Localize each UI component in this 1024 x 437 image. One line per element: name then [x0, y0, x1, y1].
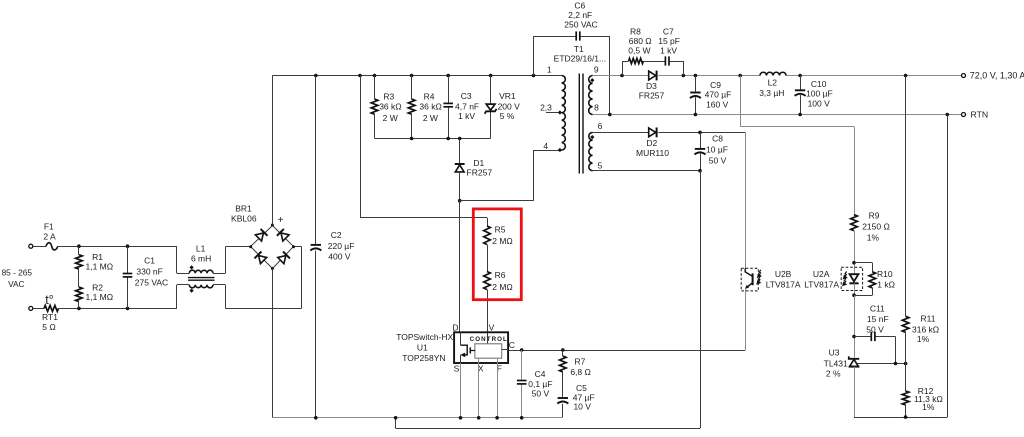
label R4 36 kohm 2 W	[419, 91, 441, 122]
wire source rail	[272, 417, 562, 419]
label C3 4,7 nF 1 kV	[455, 91, 479, 121]
svg-text:+: +	[278, 215, 284, 226]
svg-text:CONTROL: CONTROL	[470, 336, 508, 343]
wire	[905, 332, 907, 363]
diode D3	[649, 71, 657, 81]
op-amp U1 box	[454, 332, 508, 363]
capacitor C9	[690, 93, 701, 99]
node junction	[314, 74, 535, 78]
highlight box R5 R6	[473, 209, 521, 300]
label R1 1,1 Mohm	[85, 252, 113, 271]
label R6 2 Mohm	[492, 270, 513, 292]
pin label 2,3	[540, 102, 552, 112]
label T1 ETD29	[554, 44, 606, 64]
svg-text:10 µF: 10 µF	[706, 145, 728, 155]
resistor R11	[902, 316, 909, 332]
wire	[58, 246, 177, 248]
label R12 11,3 kohm 1%	[914, 386, 943, 412]
svg-text:V: V	[489, 323, 495, 333]
transformer T1 secondary winding 9-8	[589, 76, 593, 115]
label t deg	[45, 293, 53, 307]
bridge BR1 outline	[251, 226, 294, 269]
wire	[78, 246, 80, 255]
svg-text:D: D	[452, 323, 458, 333]
BR1 diode bottom-left	[254, 251, 267, 264]
node junction	[852, 293, 856, 297]
resistor R4	[408, 99, 415, 114]
wire	[562, 372, 564, 397]
wire	[78, 302, 80, 309]
svg-text:U2B: U2B	[775, 269, 792, 279]
wire	[411, 76, 413, 139]
wire S pin	[460, 363, 462, 418]
node junction	[410, 137, 462, 141]
svg-text:C11: C11	[870, 303, 885, 313]
label R11 316 kohm 1%	[912, 313, 939, 343]
wire	[700, 132, 702, 170]
svg-text:9: 9	[594, 64, 599, 74]
inductor L1 bottom winding	[189, 285, 213, 288]
svg-text:C2: C2	[331, 230, 342, 240]
svg-text:TL431: TL431	[824, 358, 848, 368]
label 85 - 265 VAC	[2, 268, 33, 289]
label plus	[278, 215, 284, 226]
svg-text:4,7 nF: 4,7 nF	[455, 101, 479, 111]
pin label 4	[543, 141, 548, 151]
wire RTN rail	[593, 114, 962, 116]
wire pin5 rail	[593, 170, 700, 172]
svg-text:2 MΩ: 2 MΩ	[492, 282, 513, 292]
label C2 220 uF 400 V	[328, 230, 355, 261]
wire	[670, 61, 684, 76]
wire	[800, 76, 802, 115]
svg-text:50 V: 50 V	[709, 155, 727, 165]
wire	[905, 364, 907, 392]
wire	[127, 246, 129, 308]
svg-text:160 V: 160 V	[706, 99, 729, 109]
svg-text:C9: C9	[710, 80, 721, 90]
T1 polarity dot primary	[558, 110, 562, 152]
label C5 47 uF 10 V	[573, 383, 595, 412]
label C10 100 uF 100 V	[806, 79, 833, 108]
wire snubber	[622, 61, 629, 76]
label C7 15 pF 1 kV	[658, 26, 680, 55]
node junction	[520, 348, 565, 352]
wire V sense	[360, 76, 488, 227]
svg-text:275 VAC: 275 VAC	[135, 278, 168, 288]
wire TL431 ref	[857, 363, 906, 365]
svg-text:T1: T1	[574, 44, 584, 54]
wire	[521, 350, 523, 418]
svg-text:1: 1	[547, 64, 552, 74]
label U3 TL431 2 %	[824, 347, 848, 378]
svg-text:R10: R10	[877, 269, 893, 279]
svg-text:C3: C3	[461, 91, 472, 101]
wire	[78, 269, 80, 287]
input terminal N (neutral)	[29, 306, 33, 310]
wire sec top rail	[593, 75, 962, 77]
transformer T1 primary winding	[562, 76, 566, 151]
resistor R6	[484, 272, 491, 290]
svg-text:1,1 MΩ: 1,1 MΩ	[85, 292, 113, 302]
svg-text:2150 Ω: 2150 Ω	[862, 221, 890, 231]
wire V pin	[487, 290, 489, 344]
svg-text:t°: t°	[45, 293, 53, 307]
pin 2,3 stub	[546, 112, 562, 114]
svg-text:72,0 V, 1,30 A: 72,0 V, 1,30 A	[970, 71, 1024, 81]
capacitor C11 wiring	[854, 337, 896, 364]
wire top rail	[272, 75, 561, 77]
svg-text:36 kΩ: 36 kΩ	[419, 101, 441, 111]
svg-text:2 W: 2 W	[423, 113, 438, 123]
svg-text:BR1: BR1	[235, 203, 252, 213]
resistor R9	[851, 215, 858, 231]
wire	[658, 132, 745, 134]
wire sense divider	[905, 76, 907, 317]
resistor R2	[76, 287, 83, 302]
svg-text:1 kV: 1 kV	[458, 111, 475, 121]
svg-text:220 µF: 220 µF	[328, 241, 355, 251]
U2A light arrows	[843, 271, 847, 285]
capacitor C10	[795, 90, 806, 96]
svg-text:1 kΩ: 1 kΩ	[877, 279, 895, 289]
svg-text:RTN: RTN	[971, 110, 989, 120]
BR1 diode top-right	[277, 229, 290, 242]
svg-text:R6: R6	[495, 270, 506, 280]
L1 polarity dot	[190, 265, 194, 269]
wire fb bottom rail	[854, 417, 947, 419]
label L2 3,3 uH	[759, 77, 784, 98]
svg-text:1 kV: 1 kV	[660, 45, 677, 55]
svg-text:250 VAC: 250 VAC	[564, 19, 597, 29]
wire	[490, 76, 492, 139]
zener VR1	[485, 104, 497, 114]
pin label D	[452, 323, 458, 333]
L1 core	[188, 278, 215, 281]
label R9 2150 ohm 1%	[862, 211, 890, 243]
wire RTN drop	[947, 115, 949, 418]
pin label X	[478, 364, 484, 374]
node junction	[458, 199, 462, 203]
svg-text:2 %: 2 %	[826, 368, 841, 378]
node junction	[77, 244, 81, 310]
svg-text:ETD29/16/1...: ETD29/16/1...	[554, 53, 606, 63]
wire	[695, 76, 697, 115]
BR1 diode bottom-right	[277, 251, 290, 264]
U1 control block	[475, 344, 502, 358]
optocoupler U2B box	[741, 268, 758, 291]
label D3 FR257	[639, 81, 665, 101]
svg-text:R3: R3	[383, 91, 394, 101]
svg-text:F1: F1	[44, 221, 54, 231]
wire	[562, 404, 564, 418]
wire F pin	[497, 358, 499, 418]
node junction	[608, 113, 949, 117]
node junction	[620, 74, 907, 78]
label VR1 200 V 5 %	[498, 91, 521, 121]
wire opto collector	[745, 132, 747, 268]
L1 polarity dot	[190, 289, 194, 293]
svg-text:L2: L2	[768, 77, 778, 87]
svg-text:2 MΩ: 2 MΩ	[492, 236, 513, 246]
wire drain net	[460, 150, 562, 201]
svg-text:C4: C4	[535, 369, 546, 379]
svg-text:15 pF: 15 pF	[658, 36, 680, 46]
wire opto emitter	[745, 289, 747, 350]
pin label 8	[594, 103, 599, 113]
label RT1 5 ohm	[42, 312, 58, 332]
T1 polarity dot sec1	[590, 78, 594, 82]
capacitor C3	[443, 103, 453, 106]
label C1 330 nF 275 VAC	[135, 256, 168, 288]
output terminal RTN	[962, 113, 966, 117]
svg-text:5 Ω: 5 Ω	[42, 322, 55, 332]
svg-text:VR1: VR1	[499, 91, 516, 101]
svg-text:L1: L1	[196, 244, 206, 254]
T1 polarity dot sec2	[590, 135, 594, 139]
svg-text:8: 8	[594, 103, 599, 113]
label R2 1,1 Mohm	[85, 282, 113, 302]
svg-text:2 W: 2 W	[383, 113, 398, 123]
svg-text:50 V: 50 V	[532, 388, 550, 398]
wire clamp bottom rail	[375, 138, 491, 140]
wire	[854, 231, 856, 275]
label D1 FR257	[467, 158, 493, 177]
pin label 6	[598, 121, 603, 131]
svg-text:2,3: 2,3	[540, 102, 552, 112]
label U2A LTV817A	[804, 269, 839, 289]
svg-text:KBL06: KBL06	[231, 213, 257, 223]
svg-text:200 V: 200 V	[498, 101, 521, 111]
svg-text:MUR110: MUR110	[636, 148, 669, 158]
svg-text:0,5 W: 0,5 W	[628, 45, 650, 55]
pin label 1	[547, 64, 552, 74]
svg-text:TOPSwitch-HX: TOPSwitch-HX	[396, 332, 453, 342]
svg-text:1%: 1%	[867, 232, 880, 242]
wire	[854, 283, 856, 295]
wire	[534, 36, 577, 76]
svg-text:FR257: FR257	[467, 167, 493, 177]
wire	[213, 285, 302, 309]
label CONTROL	[470, 336, 508, 343]
fuse F1	[46, 243, 58, 250]
svg-text:VAC: VAC	[8, 279, 24, 289]
diode D2	[649, 128, 657, 138]
wire X pin	[478, 358, 480, 418]
resistor R1	[76, 255, 83, 269]
node junction	[126, 244, 130, 310]
label R7 6,8 ohm	[570, 357, 591, 378]
wire	[580, 36, 609, 115]
wire	[213, 247, 251, 274]
label C6 2,2 nF 250 VAC	[564, 1, 597, 30]
svg-text:470 µF: 470 µF	[705, 90, 732, 100]
wire	[272, 76, 274, 226]
resistor R3	[371, 99, 378, 114]
svg-text:RT1: RT1	[42, 312, 58, 322]
svg-text:R5: R5	[495, 224, 506, 234]
label R8 680 ohm 0,5 W	[628, 26, 651, 55]
svg-text:4: 4	[543, 141, 548, 151]
node junction	[698, 169, 702, 173]
wire R10 branch	[854, 263, 873, 296]
svg-text:U2A: U2A	[813, 269, 830, 279]
capacitor C6	[576, 31, 580, 40]
svg-text:LTV817A: LTV817A	[804, 279, 839, 289]
svg-text:100 µF: 100 µF	[806, 89, 833, 99]
svg-text:1%: 1%	[917, 334, 930, 344]
svg-text:R2: R2	[92, 282, 103, 292]
wire	[448, 76, 450, 139]
wire	[177, 246, 190, 273]
svg-text:100 V: 100 V	[808, 98, 831, 108]
shunt U3 TL431	[849, 356, 859, 366]
svg-text:D3: D3	[646, 81, 657, 91]
wire	[487, 245, 489, 272]
svg-text:1%: 1%	[922, 402, 935, 412]
node junction	[698, 131, 702, 135]
output terminal +72V	[962, 74, 966, 78]
wire	[315, 76, 317, 418]
wire	[177, 285, 190, 309]
wire	[294, 247, 302, 309]
capacitor C2	[310, 245, 321, 251]
U2B phototransistor	[745, 268, 753, 289]
resistor R7	[560, 356, 567, 372]
inductor L1 top winding	[189, 270, 213, 273]
svg-text:C1: C1	[144, 256, 155, 266]
svg-text:R7: R7	[574, 357, 585, 367]
svg-text:85 - 265: 85 - 265	[2, 268, 33, 278]
pin label 5	[598, 161, 603, 171]
U1 mosfet	[460, 345, 475, 357]
pin label C	[509, 340, 515, 350]
diode D1	[455, 164, 465, 172]
svg-text:5: 5	[598, 161, 603, 171]
svg-text:LTV817A: LTV817A	[766, 279, 801, 289]
thermistor RT1	[44, 305, 59, 311]
svg-text:U3: U3	[829, 347, 840, 357]
resistor R8	[629, 58, 644, 63]
input terminal L (line)	[29, 244, 33, 248]
node junction	[852, 335, 856, 339]
svg-text:50 V: 50 V	[866, 324, 884, 334]
wire	[593, 132, 649, 134]
pin label F	[497, 364, 502, 374]
svg-text:15 nF: 15 nF	[867, 314, 889, 324]
node junction	[904, 415, 908, 419]
svg-text:C: C	[509, 340, 515, 350]
wire	[905, 405, 907, 417]
label TOPSwitch-HX U1 TOP258YN	[396, 332, 453, 363]
label BR1 KBL06	[231, 203, 257, 223]
capacitor C5	[557, 398, 568, 404]
pin label 9	[594, 64, 599, 74]
capacitor C7	[665, 56, 669, 65]
resistor R5	[484, 226, 491, 245]
svg-text:10 V: 10 V	[573, 402, 591, 412]
svg-text:C8: C8	[712, 134, 723, 144]
U2B light arrows	[757, 270, 761, 284]
wire D pin inside	[460, 332, 462, 345]
label F1 2 A	[43, 221, 56, 241]
wire S pin inside	[460, 355, 462, 363]
label C9 470 uF 160 V	[705, 80, 732, 109]
BR1 vertex nodes	[249, 224, 295, 271]
node junction	[852, 261, 856, 265]
resistor R10	[869, 272, 876, 288]
svg-text:400 V: 400 V	[328, 251, 351, 261]
svg-text:2,2 nF: 2,2 nF	[568, 10, 592, 20]
svg-text:6,8 Ω: 6,8 Ω	[570, 367, 591, 377]
capacitor C11	[871, 332, 875, 341]
svg-text:R4: R4	[424, 91, 435, 101]
label RTN	[971, 110, 989, 120]
node junction	[894, 362, 908, 366]
svg-text:FR257: FR257	[639, 91, 665, 101]
wire drain to U1	[459, 201, 461, 333]
transformer T1 bias winding 6-5	[589, 132, 593, 170]
node junction	[314, 416, 524, 420]
label U2B LTV817A	[766, 269, 801, 289]
wire C pin	[502, 350, 746, 351]
pin label V	[489, 323, 495, 333]
wire	[854, 295, 856, 357]
svg-text:6 mH: 6 mH	[191, 254, 211, 264]
wire bias return	[396, 171, 701, 429]
resistor R12	[902, 391, 909, 405]
svg-text:330 nF: 330 nF	[136, 266, 162, 276]
svg-text:U1: U1	[417, 343, 428, 353]
U2A LED	[849, 274, 858, 283]
wire	[459, 139, 461, 164]
svg-text:TOP258YN: TOP258YN	[402, 353, 445, 363]
wire opto bias	[740, 76, 854, 215]
capacitor C1	[123, 274, 133, 277]
capacitor C4	[517, 381, 527, 384]
wire	[643, 61, 665, 63]
svg-text:S: S	[454, 364, 460, 374]
inductor L2	[760, 72, 786, 75]
svg-text:R9: R9	[869, 211, 880, 221]
label C8 10 uF 50 V	[706, 134, 728, 166]
wire	[562, 350, 564, 356]
pin label S	[454, 364, 460, 374]
label R10 1 kohm	[877, 269, 895, 289]
label R3 36 kohm 2 W	[379, 91, 401, 122]
capacitor C8	[695, 149, 706, 155]
label R5 2 Mohm	[492, 224, 513, 245]
svg-text:680 Ω: 680 Ω	[629, 36, 652, 46]
svg-text:5 %: 5 %	[500, 111, 515, 121]
label C11 15 nF 50 V	[866, 303, 888, 334]
svg-text:1,1 MΩ: 1,1 MΩ	[85, 261, 113, 271]
svg-text:6: 6	[598, 121, 603, 131]
svg-text:3,3 µH: 3,3 µH	[759, 88, 784, 98]
wire	[33, 246, 46, 248]
BR1 diode top-left	[255, 229, 268, 242]
svg-text:D2: D2	[646, 138, 657, 148]
svg-text:C10: C10	[811, 79, 827, 89]
label L1 6 mH	[191, 244, 211, 264]
wire	[374, 76, 376, 139]
wire	[854, 367, 856, 418]
wire	[59, 308, 177, 310]
label 72,0 V 1,30 A	[970, 71, 1024, 81]
label D2 MUR110	[636, 138, 669, 158]
optocoupler U2A box	[841, 267, 862, 290]
wire	[459, 173, 461, 201]
